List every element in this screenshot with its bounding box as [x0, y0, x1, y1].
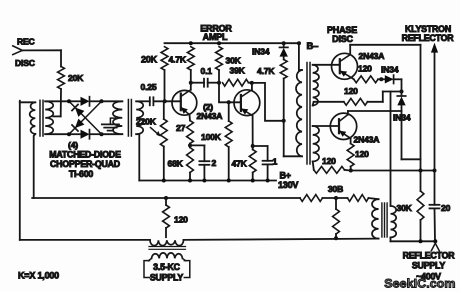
- svg-text:AMPL: AMPL: [203, 32, 228, 42]
- svg-text:(4): (4): [68, 140, 78, 150]
- svg-text:0.1: 0.1: [201, 66, 213, 76]
- svg-text:MATCHED-DIODE: MATCHED-DIODE: [49, 150, 121, 160]
- svg-text:SUPPLY: SUPPLY: [150, 272, 184, 282]
- svg-text:20: 20: [441, 203, 451, 213]
- svg-text:30B: 30B: [328, 184, 343, 194]
- svg-text:30K: 30K: [226, 56, 242, 66]
- svg-text:IN34: IN34: [393, 112, 411, 122]
- svg-text:REFLECTOR: REFLECTOR: [403, 250, 456, 260]
- svg-text:120: 120: [358, 63, 372, 73]
- svg-text:120: 120: [344, 86, 358, 96]
- svg-text:47K: 47K: [232, 158, 248, 168]
- svg-text:REFLECTOR: REFLECTOR: [402, 33, 455, 43]
- svg-text:DISC: DISC: [15, 58, 35, 68]
- svg-text:SeekIC.com: SeekIC.com: [384, 277, 455, 291]
- svg-text:IN34: IN34: [252, 46, 270, 56]
- svg-text:IN34: IN34: [381, 64, 399, 74]
- svg-text:2N43A: 2N43A: [359, 51, 385, 61]
- svg-text:SUPPLY: SUPPLY: [412, 260, 446, 270]
- svg-text:120: 120: [174, 214, 188, 224]
- svg-text:B–: B–: [307, 41, 319, 52]
- svg-text:120: 120: [355, 149, 369, 159]
- svg-text:4.7K: 4.7K: [169, 54, 187, 64]
- svg-text:130V: 130V: [278, 180, 298, 190]
- svg-text:20K: 20K: [141, 54, 158, 64]
- svg-text:B+: B+: [280, 170, 291, 180]
- svg-text:REC: REC: [17, 36, 35, 46]
- svg-text:DISC: DISC: [332, 34, 353, 44]
- svg-text:K=X 1,000: K=X 1,000: [18, 271, 59, 281]
- svg-text:100K: 100K: [201, 132, 222, 142]
- svg-text:120: 120: [322, 156, 336, 166]
- svg-text:68K: 68K: [168, 158, 184, 168]
- svg-text:2N43A: 2N43A: [354, 134, 380, 144]
- svg-text:CHOPPER-QUAD: CHOPPER-QUAD: [50, 159, 120, 169]
- svg-text:20K: 20K: [68, 73, 84, 83]
- svg-text:30K: 30K: [397, 203, 413, 213]
- svg-text:27: 27: [176, 123, 186, 133]
- svg-text:2N43A: 2N43A: [197, 111, 223, 121]
- svg-text:220K: 220K: [136, 116, 157, 126]
- svg-text:0.25: 0.25: [141, 82, 157, 92]
- svg-text:4.7K: 4.7K: [257, 66, 275, 76]
- svg-text:39K: 39K: [230, 65, 246, 75]
- svg-text:3.5-KC: 3.5-KC: [153, 262, 181, 272]
- svg-text:1: 1: [273, 156, 278, 166]
- svg-text:TI-600: TI-600: [69, 169, 94, 179]
- svg-text:2: 2: [212, 158, 217, 168]
